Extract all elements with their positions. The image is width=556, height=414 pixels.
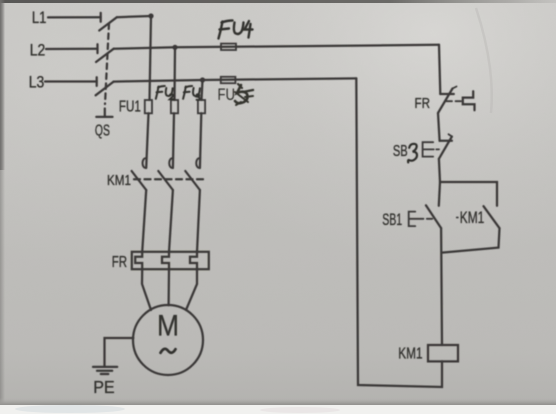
svg-text:L2: L2	[30, 40, 46, 59]
svg-text:FR: FR	[415, 95, 431, 112]
svg-text:KM1: KM1	[398, 345, 422, 362]
svg-text:M: M	[157, 309, 179, 342]
svg-text:L1: L1	[32, 8, 47, 27]
svg-text:SB: SB	[393, 143, 408, 160]
svg-text:KM1: KM1	[107, 173, 131, 189]
svg-text:KM1: KM1	[460, 209, 485, 227]
svg-text:PE: PE	[93, 377, 115, 397]
svg-text:L3: L3	[29, 73, 45, 92]
svg-text:SB1: SB1	[382, 211, 402, 229]
svg-text:QS: QS	[95, 122, 110, 139]
svg-text:FR: FR	[112, 254, 127, 271]
svg-text:FU1: FU1	[119, 98, 141, 115]
svg-text:FU: FU	[218, 86, 236, 104]
